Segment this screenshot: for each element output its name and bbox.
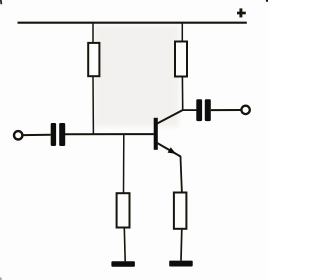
+ supply polarity label bbox=[237, 12, 246, 15]
resistor R2 (lower bias resistor) bbox=[117, 193, 130, 227]
wire: +V supply rail bbox=[18, 22, 247, 24]
wire: R3 bottom lead to collector node bbox=[181, 77, 183, 111]
wire: collector node to C2 bbox=[183, 109, 197, 111]
transistor Q1 emitter stroke bbox=[157, 143, 181, 157]
scan shading block between bias network and collector branch bbox=[94, 25, 179, 127]
capacitor C1 (input coupling) bbox=[51, 123, 65, 146]
wire: input terminal to C1 bbox=[23, 134, 51, 136]
scan speck top-right corner bbox=[266, 0, 269, 2]
transistor Q1 collector stroke bbox=[157, 110, 183, 124]
wire: C2 to output terminal bbox=[211, 109, 242, 111]
input terminal circle bbox=[14, 131, 22, 139]
wire: R2 bottom lead to ground bbox=[123, 228, 126, 262]
resistor R1 (upper bias resistor) bbox=[88, 43, 99, 76]
wire: C1 to base of Q1 bbox=[65, 133, 154, 135]
wire: R1 top lead from rail bbox=[92, 23, 94, 43]
transistor Q1 base bar bbox=[154, 118, 158, 150]
wire: R3 top lead from rail bbox=[181, 23, 183, 42]
scan speck bottom-left corner bbox=[0, 278, 1, 280]
capacitor C2 (output coupling) bbox=[196, 99, 211, 121]
wire: emitter of Q1 down to R4 bbox=[181, 156, 182, 192]
resistor R4 (emitter resistor) bbox=[174, 193, 187, 229]
output terminal circle bbox=[241, 106, 249, 114]
resistor R3 (collector resistor) bbox=[175, 42, 187, 77]
node: base bias divider junction, lead down to R2 bbox=[123, 134, 125, 193]
ground symbol (right, under R4) bbox=[169, 261, 193, 267]
ground symbol (left, under R2) bbox=[111, 261, 134, 266]
wire: R4 bottom lead to ground bbox=[180, 229, 183, 261]
transistor Q1 emitter arrow bbox=[168, 147, 177, 154]
scan speck top-left corner bbox=[0, 0, 2, 4]
wire: R1 bottom lead to base node bbox=[92, 76, 94, 134]
